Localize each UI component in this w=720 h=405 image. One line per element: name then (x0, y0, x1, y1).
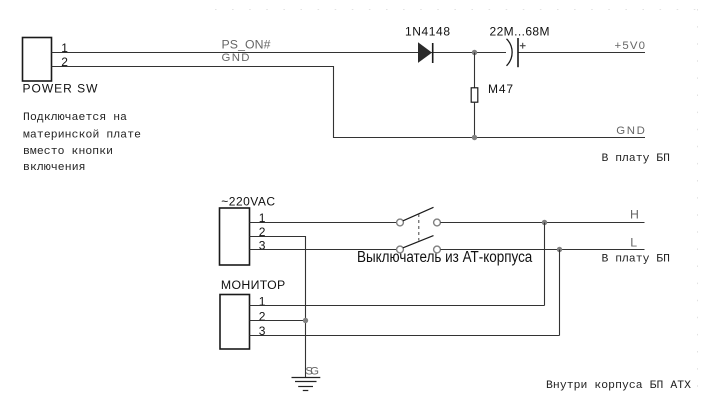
switch SW1a right contact (434, 219, 441, 226)
capacitor plus sign (520, 45, 526, 47)
svg-text:H: H (630, 207, 639, 221)
svg-text:включения: включения (23, 162, 86, 174)
junction node L (557, 247, 562, 252)
svg-text:POWER SW: POWER SW (23, 82, 99, 96)
svg-text:22M...68M: 22M...68M (490, 24, 550, 38)
page border dotted right (697, 9, 699, 400)
svg-text:L: L (630, 236, 637, 250)
wire J2 pin1 to switch (250, 222, 397, 224)
svg-text:2: 2 (61, 55, 68, 69)
svg-text:Внутри корпуса БП АТХ: Внутри корпуса БП АТХ (546, 380, 691, 392)
wire L from switch to right (440, 249, 644, 251)
switch SW1a blade (403, 207, 434, 221)
wire J3 pin3 to L drop (250, 335, 560, 337)
ground SG bar3 (298, 386, 313, 388)
svg-text:GND: GND (222, 52, 250, 64)
svg-text:1: 1 (259, 295, 266, 309)
junction node resistor/GND rail (472, 135, 477, 140)
wire +5V0 from capacitor plate to right end (518, 52, 645, 54)
wire L down to monitor pin3 (559, 250, 561, 336)
svg-text:~220VAC: ~220VAC (221, 195, 275, 209)
ground SG bar4 (303, 390, 309, 392)
junction node H (542, 220, 547, 225)
wire resistor top leg (474, 53, 476, 89)
svg-text:В плату БП: В плату БП (602, 153, 671, 165)
page border dotted top (215, 9, 697, 11)
wire H down to monitor pin1 (544, 223, 546, 306)
wire resistor bottom leg (474, 102, 476, 137)
svg-text:1N4148: 1N4148 (405, 25, 450, 39)
connector J3 МОНИТОР body (220, 295, 250, 350)
wire GND from J1 pin2 (52, 67, 646, 138)
svg-text:материнской плате: материнской плате (23, 130, 141, 142)
svg-text:Выключатель из АТ-корпуса: Выключатель из АТ-корпуса (357, 249, 533, 266)
wire J2 pin2 down to monitor/ground (250, 237, 306, 378)
switch SW1b right contact (434, 246, 441, 253)
switch SW1b blade (403, 236, 434, 248)
svg-text:3: 3 (259, 239, 266, 253)
wire H from switch to right (440, 222, 644, 224)
switch SW1a left contact (397, 219, 404, 226)
svg-text:+5V0: +5V0 (615, 40, 646, 52)
connector J2 ~220VAC body (220, 208, 250, 265)
svg-text:В плату БП: В плату БП (602, 253, 671, 265)
svg-text:GND: GND (616, 125, 645, 137)
junction node PS_ON/resistor (472, 50, 477, 55)
capacitor C1 curved plate (507, 39, 513, 66)
svg-text:МОНИТОР: МОНИТОР (221, 278, 285, 292)
switch SW1b left contact (397, 246, 404, 253)
svg-text:SG: SG (305, 366, 319, 378)
svg-text:вместо кнопки: вместо кнопки (23, 146, 113, 158)
switch gang dashed link (418, 214, 420, 241)
junction node monitor pin2 (303, 318, 308, 323)
connector J1 POWER SW body (23, 38, 52, 82)
svg-text:M47: M47 (488, 82, 513, 96)
wire PS_ON# from J1 pin1 to capacitor (52, 52, 507, 54)
diode D1 cathode bar (432, 43, 434, 63)
ground SG bar1 (292, 377, 321, 379)
ground SG bar2 (295, 381, 317, 383)
wire J3 pin1 to H drop (250, 305, 545, 307)
wire J3 pin2 to ground drop (250, 320, 306, 322)
diode D1 1N4148 triangle (418, 42, 432, 63)
capacitor C1 straight plate (517, 38, 519, 67)
svg-text:PS_ON#: PS_ON# (222, 38, 271, 52)
wire J2 pin3 to switch (250, 249, 397, 251)
svg-text:2: 2 (259, 309, 266, 323)
resistor M47 body (471, 88, 478, 102)
svg-text:Подключается на: Подключается на (23, 112, 127, 124)
